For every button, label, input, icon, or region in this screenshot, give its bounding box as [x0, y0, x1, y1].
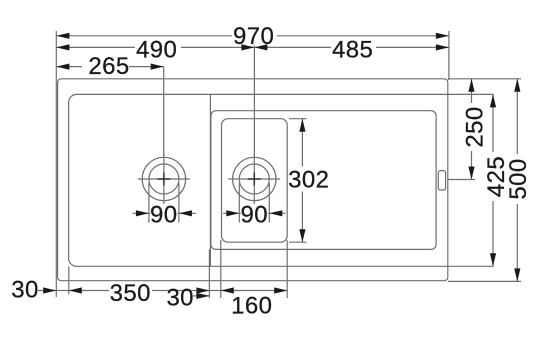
dim line 500: [516, 79, 518, 282]
extension line right edge top: [448, 31, 450, 80]
svg-text:250: 250: [461, 106, 488, 147]
extension line top edge right: [448, 78, 521, 80]
arrow 302 top: [299, 119, 305, 132]
dim line 90 left with tails: [133, 212, 196, 214]
svg-text:302: 302: [288, 167, 329, 194]
arrow 160 right: [274, 287, 287, 293]
tap hole small-bowl outer circle: [233, 157, 276, 200]
arrowheads: [43, 33, 520, 299]
svg-text:500: 500: [505, 158, 532, 199]
tap hole small-bowl inner circle: [239, 164, 269, 194]
arrow 265 left: [56, 64, 69, 70]
dim line stub lower 30: [193, 295, 209, 297]
arrow 970 right: [436, 33, 449, 39]
arrow 90 left dim, right outside: [179, 210, 192, 216]
big bowl left edge with rounded corners: [69, 94, 77, 266]
arrow 490 right: [241, 44, 254, 50]
arrow 30mid-160 shared at small bowl left: [221, 287, 234, 293]
arrow 30 mid lower: [196, 293, 209, 299]
arrow 90 left dim, left outside: [136, 210, 149, 216]
arrow 425 top: [490, 94, 496, 107]
arrow 30 left outside: [43, 287, 56, 293]
dim line 90 small with tails: [223, 212, 286, 214]
extension lines 90 left tap: [148, 183, 150, 223]
centerline left tap vertical: [163, 153, 165, 205]
center cross small tap: [248, 178, 261, 180]
svg-text:350: 350: [110, 280, 151, 307]
drainer recess outline: [211, 111, 436, 250]
extension line small bowl bottom right (302): [289, 241, 307, 243]
dim line 250: [471, 79, 473, 180]
arrow 30-350 shared at bowl edge: [69, 287, 82, 293]
svg-text:160: 160: [231, 293, 272, 320]
arrow 90 small dim, left outside: [226, 210, 239, 216]
arrow 490 left: [56, 44, 69, 50]
dim line 265: [56, 66, 163, 68]
arrow 970 left: [56, 33, 69, 39]
svg-text:970: 970: [233, 23, 274, 50]
svg-text:485: 485: [332, 37, 373, 64]
extension line small bowl left below: [220, 240, 222, 298]
arrow 485 right: [436, 44, 449, 50]
arrow 90 small dim, right outside: [269, 210, 282, 216]
big bowl top edge + 425 top extension line: [77, 93, 494, 95]
tap hole left outer circle: [142, 157, 185, 200]
tap hole left inner circle: [149, 164, 179, 194]
extension line bowl left below (30/350): [68, 266, 70, 294]
centerline small tap vertical: [253, 153, 255, 205]
arrow 302 bottom: [299, 229, 305, 242]
svg-text:30: 30: [11, 277, 39, 304]
extension line left tap (265): [163, 67, 165, 156]
small bowl outline: [222, 119, 288, 243]
arrow 265 right: [151, 64, 164, 70]
dim line 302: [301, 119, 303, 243]
center cross left tap: [157, 178, 170, 180]
dim line 970: [56, 35, 449, 37]
white backgrounds for dimension texts: [82, 25, 528, 302]
outer sink outline: [58, 79, 448, 281]
extension line bottom edge right (500 bottom): [448, 280, 521, 282]
big bowl bottom edge + 425 bottom extension line: [77, 265, 494, 267]
extension lines 90 small tap: [238, 183, 240, 223]
arrow 250 bottom: [468, 167, 474, 180]
arrow 425 bottom: [490, 253, 496, 266]
extension line small bowl top right (302): [289, 118, 307, 120]
extension line divider left below: [208, 249, 210, 298]
bowl divider line: [209, 94, 211, 266]
overflow fitting right edge: [438, 171, 445, 190]
arrow 350 right: [196, 287, 209, 293]
dim line 425: [492, 94, 494, 266]
svg-text:90: 90: [241, 201, 269, 228]
svg-text:90: 90: [150, 201, 178, 228]
arrow 250 top: [468, 79, 474, 92]
dim line bottom 30/350/30/160: [38, 290, 287, 292]
extension line center tap (490/485): [253, 46, 255, 157]
arrow 485 left: [254, 44, 267, 50]
centerline left tap horizontal: [138, 178, 190, 180]
centerline small tap horizontal: [228, 178, 280, 180]
dim line 490/485: [56, 46, 449, 48]
extension line small bowl right below: [286, 240, 288, 298]
arrow 500 bottom: [514, 268, 520, 281]
svg-text:490: 490: [136, 37, 177, 64]
svg-text:30: 30: [166, 285, 194, 312]
svg-text:265: 265: [88, 53, 129, 80]
extension line left edge (vertical, full height): [55, 31, 57, 297]
extension line tap level right (250 bottom): [448, 179, 475, 181]
arrow 500 top: [514, 79, 520, 92]
